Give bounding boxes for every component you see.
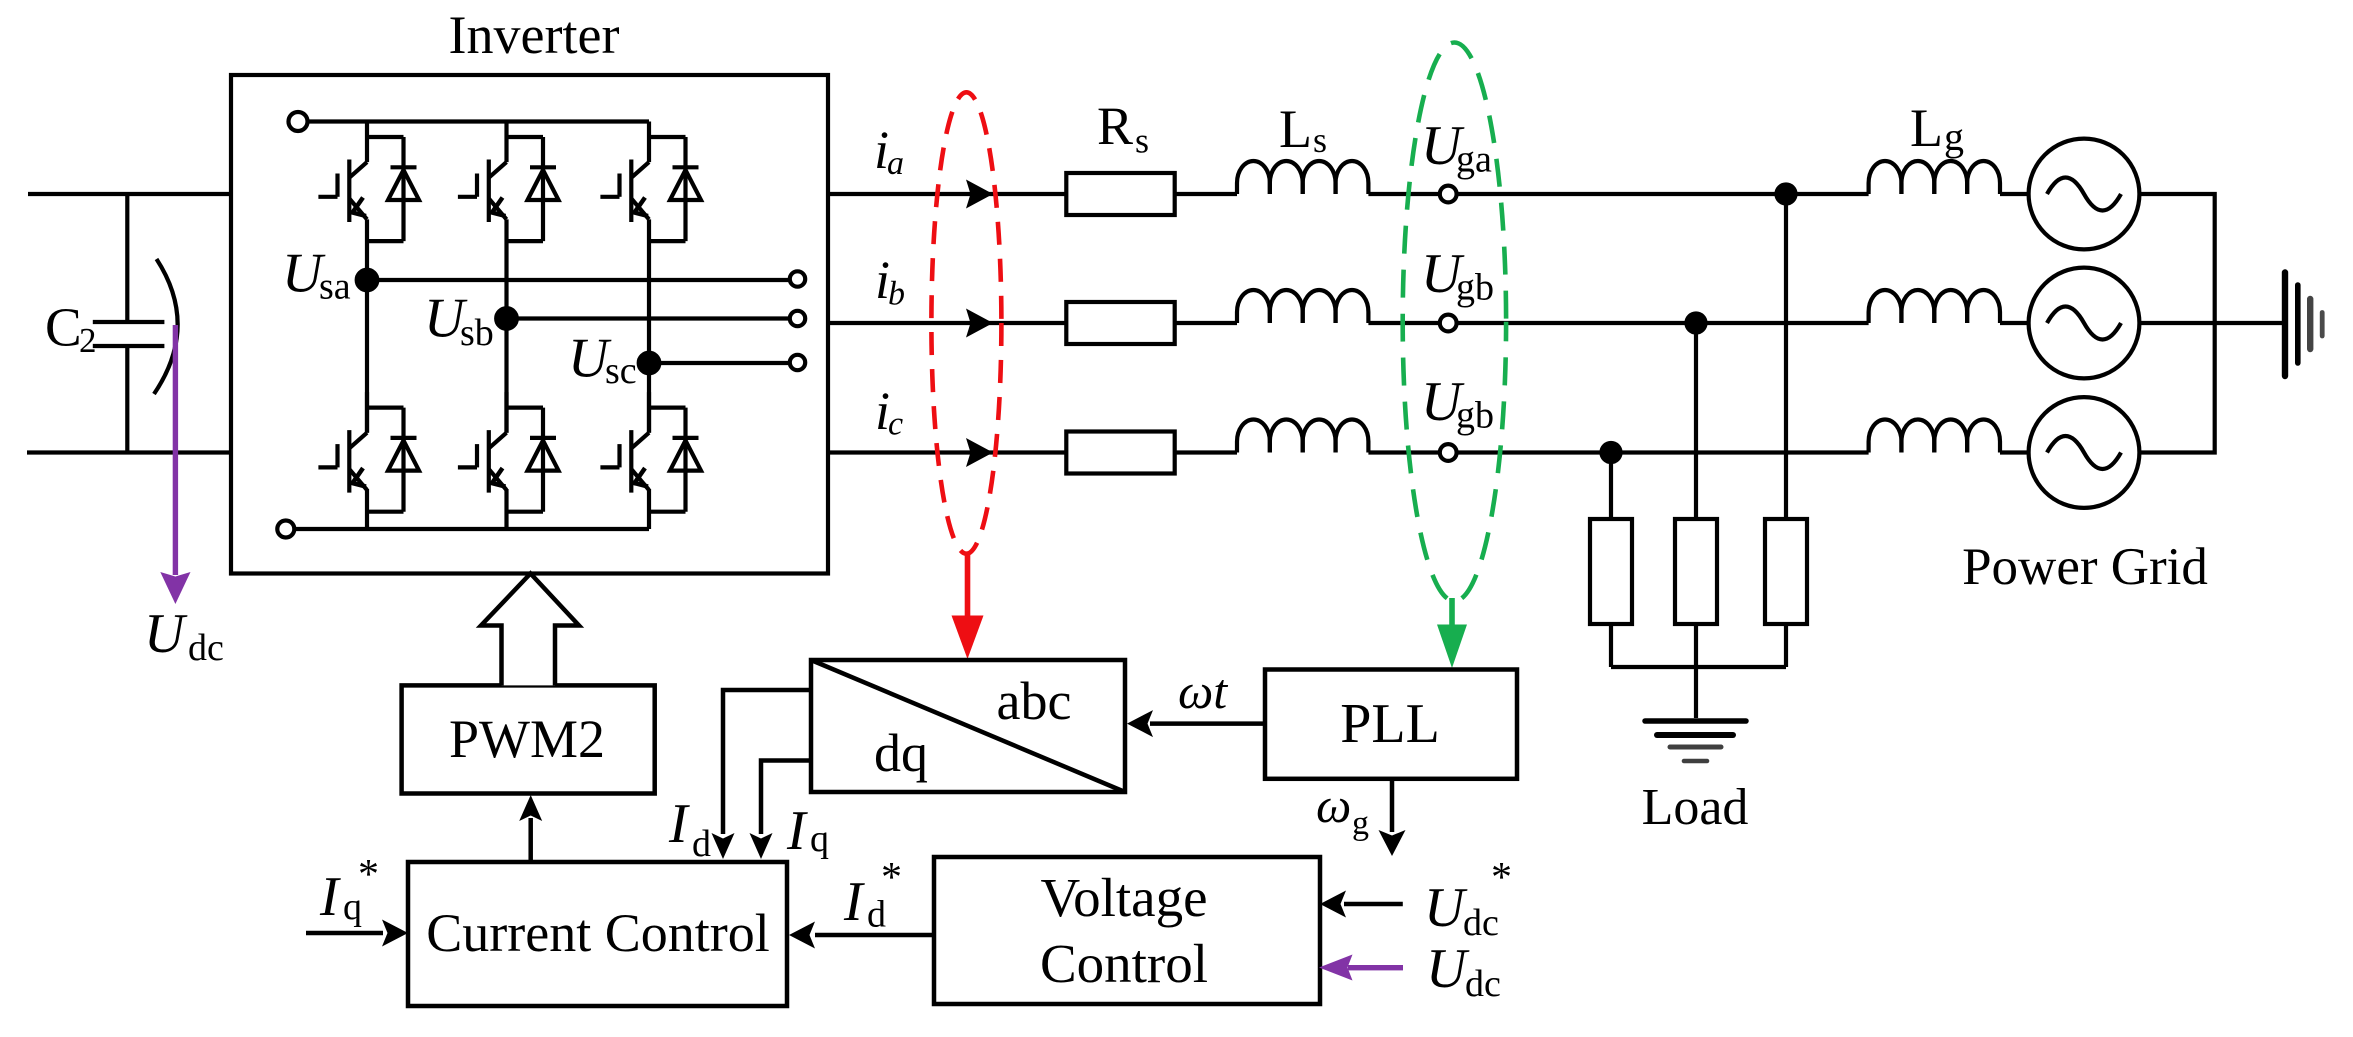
svg-text:C: C	[45, 297, 82, 358]
arrowhead current ia	[966, 180, 993, 209]
PWM2 block	[402, 685, 655, 793]
arrowhead current ib	[966, 309, 993, 338]
purple arrow Udc into Voltage Control	[1319, 955, 1403, 981]
wire: phase c Ls to Ugb node	[1368, 450, 1439, 454]
svg-text:dq: dq	[874, 723, 928, 783]
svg-text:dc: dc	[1463, 902, 1499, 944]
capacitor C2 top lead	[125, 194, 129, 322]
svg-text:Power Grid: Power Grid	[1962, 538, 2208, 596]
svg-text:U: U	[1426, 938, 1470, 1000]
terminal circle phase b output	[790, 311, 805, 326]
wire: leg c midpoint vertical	[647, 219, 651, 432]
resistor load Ra	[1765, 519, 1807, 624]
wire: load drop phase a	[1784, 194, 1788, 519]
inductor Ls phase c	[1237, 419, 1368, 452]
svg-text:s: s	[1313, 120, 1327, 160]
wire: Udc* input	[1344, 902, 1403, 907]
Voltage Control block	[934, 857, 1320, 1004]
arrowhead omega-t into abc/dq	[1127, 710, 1153, 737]
wire: Usb output to terminal	[507, 316, 790, 320]
wire: load bottoms to star point	[1611, 624, 1786, 718]
wire: Usa output to terminal	[367, 278, 790, 282]
AC source Vb (grid phase b)	[2029, 268, 2140, 379]
wire: phase a junction to Lg	[1786, 192, 1869, 196]
svg-text:abc: abc	[997, 671, 1072, 731]
svg-text:q: q	[810, 818, 829, 860]
node phase c load tap (dot)	[1602, 443, 1621, 462]
svg-text:I: I	[319, 866, 341, 928]
svg-text:g: g	[1944, 114, 1964, 159]
wire: leg a midpoint vertical	[365, 219, 369, 432]
resistor load Rc	[1590, 519, 1632, 624]
wire: bottom rail inside inverter	[295, 527, 650, 531]
svg-text:gb: gb	[1456, 395, 1494, 437]
node Ugb phase c (open terminal circle)	[1440, 444, 1457, 461]
Current Control block	[408, 862, 787, 1006]
inverter box U1	[231, 75, 828, 574]
MAIN	[27, 75, 828, 574]
svg-text:s: s	[1135, 121, 1149, 161]
inductor Lg phase c	[1869, 419, 2000, 452]
AC source Va (grid phase a)	[2029, 139, 2140, 250]
DC+ input terminal (open circle)	[289, 112, 308, 131]
svg-text:Inverter: Inverter	[449, 5, 620, 65]
wire: leg b emitter to bottom rail	[504, 489, 508, 529]
wire: phase a Rs to Ls	[1175, 192, 1237, 196]
wire: phase b line inverter to Rs	[828, 321, 1066, 325]
resistor Rs phase a	[1066, 173, 1174, 215]
svg-text:Control: Control	[1040, 933, 1208, 994]
svg-text:*: *	[881, 855, 902, 901]
arrowhead into PWM2	[519, 795, 542, 821]
PLL block	[1265, 670, 1517, 779]
wire: Lg to source a	[2000, 192, 2029, 196]
wire: omega-t PLL to abc/dq	[1150, 721, 1265, 726]
wire: Lg to source c	[2000, 450, 2029, 454]
svg-text:b: b	[888, 276, 905, 313]
svg-text:R: R	[1097, 96, 1133, 156]
svg-text:dc: dc	[188, 627, 224, 669]
arrowhead Id* into Current Control	[789, 922, 815, 949]
svg-text:c: c	[888, 406, 903, 443]
node Usc (junction dot)	[639, 353, 660, 374]
wire: DC+ rail from left	[28, 192, 231, 196]
DC- input terminal (open circle)	[277, 521, 294, 538]
ARROWS	[966, 180, 993, 468]
wire: phase c line inverter to Rs	[828, 450, 1066, 454]
abc/dq block diagonal	[811, 660, 1125, 792]
wire: load drop phase c	[1609, 453, 1613, 520]
arrowhead Id into Current Control	[712, 833, 735, 859]
wire: Id* Voltage Control to Current Control	[815, 933, 934, 938]
transistor Q1 (IGBT, top leg a) with freewheel diode D1	[318, 122, 419, 242]
wire: top rail inside inverter	[308, 119, 649, 123]
wire: phase c to grid junction	[1457, 450, 1611, 454]
arrowhead Iq into Current Control	[750, 833, 773, 859]
svg-text:U: U	[1424, 877, 1468, 939]
svg-text:PLL: PLL	[1340, 693, 1440, 755]
svg-text:2: 2	[79, 321, 97, 360]
arrowhead Iq* into Current Control	[382, 920, 408, 947]
svg-text:ωt: ωt	[1178, 663, 1228, 719]
node Usa (junction dot)	[357, 270, 378, 291]
wire: Current Control to PWM2	[528, 818, 533, 862]
wire: phase b Ls to Ugb node	[1368, 321, 1439, 325]
wire: omega-g down from PLL	[1390, 779, 1395, 832]
svg-text:d: d	[692, 823, 711, 865]
capacitor C2 plates	[93, 322, 165, 346]
svg-text:I: I	[786, 800, 808, 862]
red arrow to abc/dq block	[952, 552, 984, 659]
capacitor C2 bottom lead	[125, 346, 129, 453]
ground symbol load star point	[1645, 718, 1746, 724]
CONTROL	[306, 574, 1517, 1007]
node Usb (junction dot)	[496, 308, 517, 329]
node Ugb (open terminal circle)	[1440, 315, 1457, 332]
wire: phase b junction to Lg	[1696, 321, 1869, 325]
inductor Lg phase a	[1869, 161, 2000, 194]
arrowhead omega-g	[1379, 830, 1406, 856]
transistor Q5 (IGBT, bottom leg b) with freewheel diode D5	[458, 392, 559, 512]
svg-text:sc: sc	[605, 350, 637, 392]
svg-text:*: *	[1491, 855, 1512, 901]
svg-text:L: L	[1910, 98, 1943, 158]
wire: phase c junction to Lg	[1611, 450, 1869, 454]
AC source Vc (grid phase c)	[2029, 397, 2140, 508]
svg-text:g: g	[1352, 805, 1369, 842]
transistor Q2 (IGBT, top leg b) with freewheel diode D2	[458, 122, 559, 242]
inductor Lg phase b	[1869, 290, 2000, 323]
node Uga (open terminal circle)	[1440, 186, 1457, 203]
svg-text:ω: ω	[1316, 777, 1351, 833]
terminal circle phase a output	[790, 271, 805, 286]
wire: leg b midpoint vertical	[504, 219, 508, 432]
svg-text:L: L	[1279, 99, 1312, 159]
wire: Lg to source b	[2000, 321, 2029, 325]
svg-text:a: a	[887, 145, 904, 182]
svg-text:*: *	[358, 852, 379, 898]
inductor Ls phase b	[1237, 290, 1368, 323]
wire: leg a emitter to bottom rail	[365, 489, 369, 529]
green dashed ellipse (voltage measurement)	[1403, 43, 1506, 602]
transistor Q6 (IGBT, bottom leg c) with freewheel diode D6	[600, 392, 701, 512]
svg-text:dc: dc	[1465, 963, 1501, 1005]
wire: phase a line inverter to Rs	[828, 192, 1066, 196]
wire: phase c Rs to Ls	[1175, 450, 1237, 454]
svg-text:Current Control: Current Control	[426, 903, 769, 963]
inductor Ls phase a	[1237, 161, 1368, 194]
transistor Q3 (IGBT, top leg c) with freewheel diode D3	[600, 122, 701, 242]
block arrow PWM2 to inverter (hollow)	[481, 574, 579, 686]
svg-text:Load: Load	[1642, 779, 1749, 836]
wire: phase a to grid junction	[1457, 192, 1786, 196]
red dashed ellipse (current measurement)	[931, 92, 1001, 553]
wire: Usc output to terminal	[649, 361, 790, 365]
wire: Iq from dq to Current Control	[761, 761, 811, 835]
svg-text:PWM2: PWM2	[449, 709, 605, 769]
svg-text:gb: gb	[1456, 267, 1494, 309]
wire: source b to ground	[2139, 321, 2284, 325]
resistor load Rb	[1675, 519, 1717, 624]
svg-text:U: U	[144, 603, 188, 665]
green arrow to PLL block	[1437, 598, 1467, 668]
purple arrow Udc measurement from C2	[160, 325, 190, 604]
svg-text:Voltage: Voltage	[1040, 867, 1207, 928]
abc/dq transform block	[811, 660, 1125, 792]
wire: phase a Ls to Uga node	[1368, 192, 1439, 196]
transistor Q4 (IGBT, bottom leg a) with freewheel diode D4	[318, 392, 419, 512]
wire: load drop phase b	[1694, 323, 1698, 519]
wire: phase b to grid junction	[1457, 321, 1696, 325]
resistor Rs phase b	[1066, 302, 1174, 344]
arrowhead current ic	[966, 438, 993, 467]
wire: leg c emitter to bottom rail	[647, 489, 651, 529]
node phase b load tap (dot)	[1687, 314, 1706, 333]
node phase a load tap (dot)	[1777, 185, 1796, 204]
svg-text:ga: ga	[1456, 139, 1492, 181]
svg-text:sa: sa	[319, 266, 351, 308]
svg-text:sb: sb	[460, 312, 494, 354]
capacitor C2 curved electrode arc	[154, 259, 178, 394]
svg-text:I: I	[843, 871, 865, 933]
ground symbol right (grid neutral)	[2282, 273, 2288, 377]
wire: Iq* input	[306, 931, 383, 936]
wire: DC- rail from left	[27, 450, 231, 454]
svg-text:I: I	[668, 793, 690, 855]
wire: Id from dq to Current Control	[723, 690, 811, 834]
wire: phase b Rs to Ls	[1175, 321, 1237, 325]
arrowhead Udc* into Voltage Control	[1320, 891, 1346, 918]
resistor Rs phase c	[1066, 432, 1174, 474]
wire: grid neutral bus right side	[2139, 194, 2214, 453]
terminal circle phase c output	[790, 355, 805, 370]
